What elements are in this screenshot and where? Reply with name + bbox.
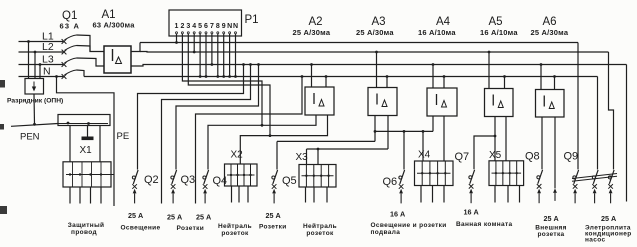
wire Х2 outgoing — [238, 186, 240, 203]
scan smudge left 1 — [0, 80, 5, 88]
wire P1 pin6 to N bus — [205, 34, 207, 77]
wire A5 neutral tap — [504, 77, 506, 89]
node N bus tap — [301, 75, 304, 78]
Х4 internal rail — [417, 172, 451, 174]
breaker Q2 — [132, 176, 135, 179]
svg-text:А2: А2 — [308, 16, 322, 28]
svg-text:Q9: Q9 — [564, 151, 579, 163]
terminal block Х3 — [299, 165, 336, 188]
rail to X3 — [307, 148, 389, 150]
RCD A1 box — [104, 46, 131, 73]
svg-text:2: 2 — [180, 23, 184, 30]
switch Q1 pole N — [62, 74, 67, 79]
svg-text:25 А: 25 А — [128, 211, 143, 220]
breaker Q4 — [203, 176, 206, 179]
rail to Q5 — [277, 140, 375, 142]
wire feed Q7 — [474, 136, 495, 169]
svg-text:L3: L3 — [42, 54, 54, 66]
svg-text:провод: провод — [71, 229, 97, 236]
scan smudge left 3 — [0, 124, 4, 130]
svg-text:Р1: Р1 — [245, 14, 259, 26]
svg-text:Освещение: Освещение — [121, 225, 161, 232]
wire L1 to A1 input — [77, 35, 105, 52]
terminal block Х5 — [489, 161, 524, 186]
svg-text:РЕ: РЕ — [117, 131, 130, 142]
wire A4 out to X4 right — [443, 116, 445, 161]
svg-text:подвала: подвала — [371, 229, 401, 236]
wire L2 to arrester — [34, 52, 36, 79]
svg-text:25 А: 25 А — [196, 213, 211, 222]
svg-text:насос: насос — [585, 237, 605, 244]
wire splitter to PE bar — [87, 126, 89, 137]
svg-text:25 А/30ма: 25 А/30ма — [293, 28, 331, 37]
wire A6 neutral tap — [554, 77, 556, 90]
svg-text:А6: А6 — [542, 16, 556, 28]
wire Х3 outgoing — [326, 187, 328, 203]
wire Х5 outgoing — [494, 186, 496, 203]
wire Х5 outgoing — [519, 186, 521, 203]
load arrow external socket neutral — [553, 188, 557, 193]
wire A4 phase tap — [432, 65, 434, 89]
wire Х2 outgoing — [231, 186, 233, 203]
wire neutral run b — [196, 77, 303, 204]
svg-text:8: 8 — [216, 23, 220, 30]
X1 internal rail — [66, 174, 114, 176]
breaker Q5 — [272, 176, 275, 179]
svg-text:4: 4 — [192, 23, 196, 30]
wire arrester to PEN bar — [33, 94, 36, 125]
node Q7 tap — [494, 135, 497, 138]
wire PEN to splitter bar — [11, 124, 58, 127]
svg-text:А5: А5 — [488, 16, 502, 28]
svg-text:А3: А3 — [371, 16, 385, 28]
breaker Q7 — [469, 176, 472, 179]
svg-text:3: 3 — [186, 23, 190, 30]
svg-text:16 А/10ма: 16 А/10ма — [418, 28, 456, 37]
wire Х4 outgoing — [443, 186, 445, 203]
wire A4 neutral tap — [443, 77, 445, 89]
wire A3 neutral tap — [386, 77, 388, 88]
node L3 arrester tap — [39, 63, 42, 66]
wire L1 to arrester — [28, 42, 30, 79]
svg-text:Q6: Q6 — [383, 176, 398, 188]
bus1 (L1) horizontal — [140, 42, 578, 44]
Х2 internal rail — [227, 174, 255, 176]
svg-text:63 А/300ма: 63 А/300ма — [93, 21, 136, 30]
terminal block Х2 — [225, 164, 258, 186]
scan smudge left 2 — [0, 206, 7, 214]
bus2 (L2) horizontal — [140, 51, 609, 54]
svg-text:Q8: Q8 — [525, 151, 540, 163]
wire PE conductor — [57, 77, 115, 207]
wire P1 pin9 to N bus — [223, 34, 225, 77]
svg-text:16 А/10ма: 16 А/10ма — [480, 28, 518, 37]
svg-text:L2: L2 — [42, 41, 54, 53]
wire A2 out to X2 — [240, 115, 327, 164]
svg-text:Х4: Х4 — [418, 150, 431, 161]
wire neutral run a — [162, 65, 251, 204]
wire N bus down to Q9 pole2 — [597, 77, 599, 170]
wire to X4 left — [422, 131, 424, 161]
terminal block X1 — [63, 162, 111, 187]
svg-text:розеток: розеток — [306, 230, 334, 237]
node N-PE split — [55, 75, 58, 78]
wire A5 phase tap — [488, 52, 490, 89]
svg-text:Q5: Q5 — [282, 175, 297, 187]
svg-text:1: 1 — [175, 23, 179, 30]
wire P1 pin5 to N bus — [199, 34, 201, 77]
svg-text:7: 7 — [210, 23, 214, 30]
RCD A6 box — [536, 90, 565, 118]
svg-text:25 А/30ма: 25 А/30ма — [531, 28, 569, 37]
svg-text:16 А: 16 А — [390, 210, 405, 219]
wire A6 phase tap — [540, 65, 542, 90]
wire P1 pinN to N bus — [235, 34, 237, 77]
wire bus3 down to stove feeder — [626, 65, 628, 202]
wire splitter internal rail — [58, 123, 108, 125]
wire L3 to arrester — [39, 65, 41, 79]
RCD A2 box — [305, 87, 334, 115]
node A3-X4 rail tap — [374, 130, 377, 133]
wire L3 to A1 input — [77, 58, 105, 66]
wire feed Q3 — [176, 65, 259, 170]
svg-text:А4: А4 — [436, 16, 451, 28]
breaker Q9 pole2 — [592, 176, 595, 179]
svg-text:Q2: Q2 — [144, 174, 159, 186]
wire A3 phase tap — [376, 52, 378, 88]
breaker Q3 — [171, 176, 174, 179]
svg-text:Х2: Х2 — [231, 150, 244, 161]
svg-text:N: N — [43, 66, 51, 78]
breaker Q6 — [399, 176, 402, 179]
node L1 arrester tap — [27, 40, 30, 43]
Х5 internal rail — [492, 172, 522, 174]
wire L1 input — [19, 41, 64, 43]
RCD A3 box — [368, 88, 397, 116]
wire P1 pin2 feed to Q4 rail — [182, 34, 262, 125]
node bus3 tap a — [242, 63, 245, 66]
wire feed Q2 — [138, 65, 244, 170]
svg-text:9: 9 — [222, 23, 226, 30]
svg-text:Розетки: Розетки — [259, 224, 287, 231]
wire X1 outgoing — [69, 187, 71, 204]
wire A5 out to X5 left — [494, 117, 496, 161]
svg-text:Х1: Х1 — [80, 145, 93, 156]
wire Х2 outgoing — [247, 186, 249, 203]
PE busbar mark — [82, 137, 94, 141]
node pin3 rail join — [269, 134, 272, 137]
svg-text:Х5: Х5 — [489, 150, 502, 161]
switch Q1 pole L3 — [62, 62, 67, 67]
wire N pole to N bus — [77, 70, 85, 77]
wire P1 pin3 feed to X2 rail — [188, 34, 270, 136]
svg-text:РЕN: РЕN — [20, 132, 40, 143]
svg-text:6: 6 — [204, 23, 208, 30]
wire bus1 down to Q9 pole1 — [577, 43, 579, 170]
bus3 (L3) horizontal — [131, 65, 627, 67]
node L2 arrester tap — [34, 51, 37, 54]
node X4 tap — [422, 130, 425, 133]
Х3 internal rail — [302, 175, 334, 177]
node splitter 2 — [87, 122, 90, 125]
wire splitter to X1 a — [69, 126, 71, 162]
wire to X3 left — [306, 149, 308, 165]
wire A2 neutral tap — [325, 77, 327, 88]
svg-text:розетка: розетка — [537, 231, 564, 238]
svg-text:Розетки: Розетки — [177, 225, 205, 232]
wire P1 pinN to N bus — [229, 34, 231, 77]
wire Х4 outgoing — [432, 186, 434, 203]
wire Х3 outgoing — [313, 187, 315, 203]
wire P1 pin4 to bus2 — [193, 34, 195, 52]
svg-text:Q7: Q7 — [455, 151, 470, 163]
wire feed Q6 — [403, 131, 405, 169]
wire P1 pin1 to bus1 — [176, 34, 178, 43]
wire A6 out (neutral) down — [554, 117, 556, 188]
breaker Q9 pole3 — [608, 176, 611, 179]
svg-text:N: N — [227, 23, 232, 30]
svg-text:Х3: Х3 — [296, 152, 309, 163]
node bus3 tap b — [249, 63, 252, 66]
RCD A4 box — [427, 88, 457, 116]
wire A3 out left — [374, 116, 376, 142]
svg-text:16 А: 16 А — [464, 208, 479, 217]
svg-text:63 А: 63 А — [60, 22, 81, 31]
breaker Q9 pole1 — [573, 176, 576, 179]
wire L2 to A1 input — [77, 46, 91, 52]
svg-text:А1: А1 — [102, 9, 116, 21]
switch Q1 pole L2 — [62, 50, 67, 55]
svg-text:N: N — [233, 23, 238, 30]
wire X1 outgoing — [79, 187, 81, 204]
wire L2 input — [19, 51, 64, 53]
wire X1 outgoing — [100, 187, 102, 204]
svg-text:5: 5 — [198, 23, 202, 30]
svg-text:Защитный: Защитный — [68, 221, 105, 229]
svg-text:Ванная комната: Ванная комната — [456, 221, 513, 228]
svg-text:Q3: Q3 — [181, 174, 196, 186]
wire A1 output to bus1 — [131, 43, 140, 52]
svg-text:25 А: 25 А — [266, 211, 281, 220]
rail A3 to A4 outputs — [375, 130, 433, 132]
node bus3 tap c — [257, 63, 260, 66]
svg-text:25 А: 25 А — [601, 214, 616, 223]
svg-text:Разрядник (ОПН): Разрядник (ОПН) — [7, 98, 63, 105]
wire P1 pin8 to N bus — [217, 34, 219, 77]
PEN splitter busbar — [58, 115, 110, 126]
wire A4 out left — [432, 116, 434, 131]
terminal box P1 — [169, 10, 242, 36]
wire Х5 outgoing — [507, 186, 509, 203]
switch Q1 pole L1 — [62, 39, 67, 44]
wire bus2 down to Q9 pole3 — [609, 52, 614, 169]
wire N input — [19, 76, 64, 78]
svg-text:Нейтраль: Нейтраль — [218, 222, 252, 230]
wire splitter to X1 b — [99, 126, 101, 162]
svg-text:Q1: Q1 — [62, 10, 77, 22]
svg-text:25 А: 25 А — [167, 213, 182, 222]
wire Х4 outgoing — [420, 186, 422, 203]
wire A2 phase tap — [311, 65, 313, 88]
node arrester-PEN junction — [33, 123, 36, 126]
bus4 (N) horizontal — [84, 76, 598, 78]
svg-text:25 А: 25 А — [544, 214, 559, 223]
wire Х3 outgoing — [305, 187, 307, 203]
wire A2 out to Q4 — [208, 115, 316, 170]
Q9 linking bar — [572, 174, 617, 179]
wire feed Q5 — [276, 141, 278, 169]
terminal block Х4 — [415, 161, 454, 186]
wire L3 input — [19, 64, 64, 66]
wire A5 out to X5 right — [505, 117, 507, 161]
node pin2 rail join — [261, 124, 264, 127]
svg-text:Нейтраль: Нейтраль — [303, 222, 337, 230]
node X3 tap b — [317, 148, 320, 151]
node Q6 tap — [403, 130, 406, 133]
surge arrester box (OPN) — [25, 79, 44, 95]
wire A6 out to Q8 — [541, 117, 543, 169]
wire to X3 right — [317, 149, 319, 165]
svg-text:25 А/30ма: 25 А/30ма — [356, 28, 394, 37]
breaker Q8 — [537, 176, 540, 179]
node splitter 1 — [67, 122, 70, 125]
RCD A5 box — [485, 89, 514, 117]
wire A3 out right — [387, 116, 389, 150]
svg-text:розеток: розеток — [221, 230, 249, 237]
wire X1 outgoing — [90, 187, 92, 204]
wire P1 pin7 to bus3 — [211, 34, 213, 65]
